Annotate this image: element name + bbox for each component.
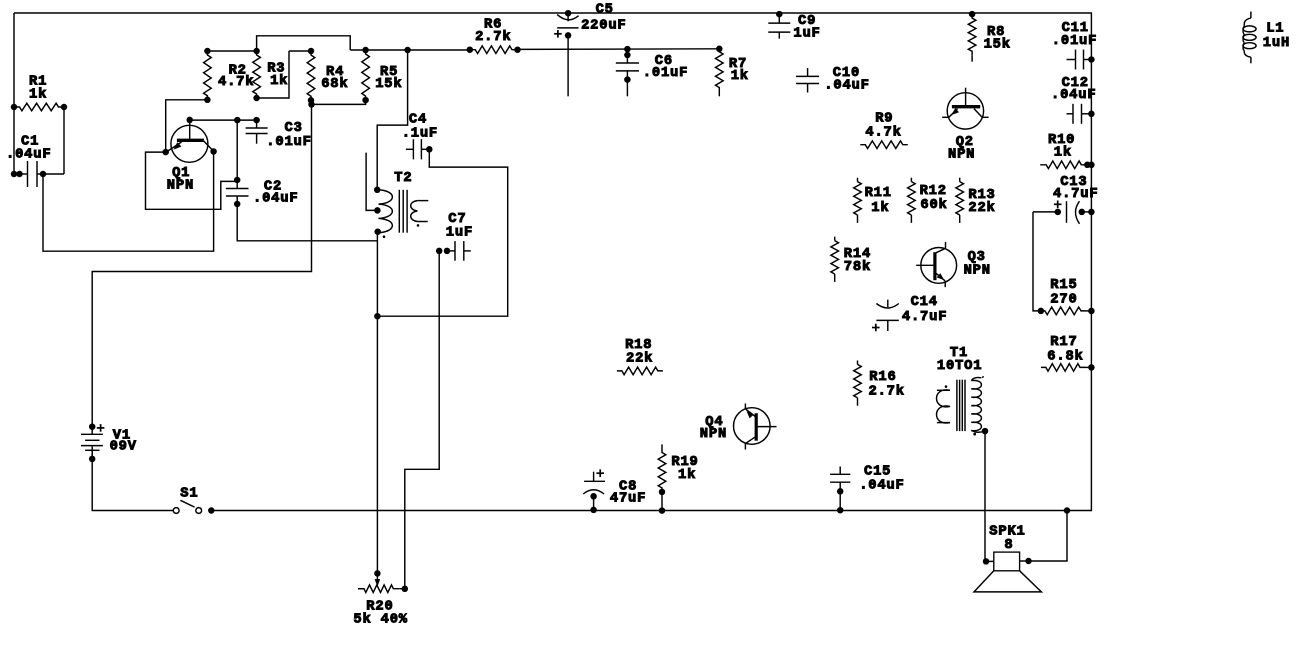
svg-text:68k: 68k — [321, 76, 348, 92]
svg-text:8: 8 — [1004, 538, 1013, 553]
svg-text:NPN: NPN — [167, 179, 194, 194]
svg-text:22k: 22k — [626, 350, 653, 366]
svg-text:R17: R17 — [1050, 335, 1077, 350]
svg-text:1uF: 1uF — [793, 27, 820, 42]
svg-text:C14: C14 — [911, 295, 938, 310]
svg-text:1uH: 1uH — [1263, 36, 1290, 51]
svg-text:22k: 22k — [968, 200, 995, 216]
svg-text:1k: 1k — [1054, 145, 1072, 161]
svg-text:09V: 09V — [110, 439, 137, 454]
svg-text:.04uF: .04uF — [253, 192, 298, 207]
svg-text:10TO1: 10TO1 — [937, 359, 982, 374]
svg-text:R11: R11 — [865, 186, 892, 201]
svg-text:4.7k: 4.7k — [865, 125, 901, 141]
svg-text:R12: R12 — [920, 184, 947, 199]
svg-text:1k: 1k — [29, 87, 47, 103]
svg-text:Q3: Q3 — [968, 250, 986, 265]
svg-text:78k: 78k — [844, 259, 871, 275]
svg-text:.04uF: .04uF — [1051, 88, 1096, 103]
svg-text:R15: R15 — [1050, 278, 1077, 293]
svg-text:220uF: 220uF — [581, 19, 626, 34]
svg-text:4.7uF: 4.7uF — [1053, 187, 1098, 202]
svg-text:5k 40%: 5k 40% — [353, 611, 407, 627]
svg-text:S1: S1 — [180, 487, 198, 502]
svg-text:4.7uF: 4.7uF — [902, 310, 947, 325]
svg-text:NPN: NPN — [964, 264, 991, 279]
svg-text:15k: 15k — [984, 37, 1011, 53]
svg-text:4.7k: 4.7k — [218, 74, 254, 90]
svg-text:.01uF: .01uF — [266, 135, 311, 150]
svg-text:1k: 1k — [270, 73, 288, 89]
svg-text:L1: L1 — [1266, 22, 1284, 37]
svg-text:T2: T2 — [394, 171, 412, 186]
svg-text:15k: 15k — [375, 76, 402, 92]
svg-text:.04uF: .04uF — [6, 148, 51, 163]
svg-text:47uF: 47uF — [610, 491, 646, 506]
svg-text:2.7k: 2.7k — [475, 29, 511, 45]
svg-text:R9: R9 — [875, 111, 893, 126]
svg-text:.04uF: .04uF — [824, 78, 869, 93]
svg-text:.1uF: .1uF — [402, 126, 438, 141]
svg-text:60k: 60k — [920, 197, 947, 213]
svg-text:NPN: NPN — [948, 148, 975, 163]
svg-text:1k: 1k — [731, 68, 749, 84]
svg-text:.01uF: .01uF — [643, 66, 688, 81]
svg-text:1k: 1k — [678, 467, 696, 483]
svg-text:C4: C4 — [409, 112, 427, 127]
svg-text:C15: C15 — [864, 465, 891, 480]
svg-text:1k: 1k — [871, 200, 889, 216]
svg-text:R16: R16 — [869, 370, 896, 385]
svg-text:1uF: 1uF — [446, 226, 473, 241]
svg-text:C5: C5 — [596, 3, 614, 18]
svg-text:2.7k: 2.7k — [869, 383, 905, 399]
svg-text:NPN: NPN — [700, 427, 727, 442]
svg-text:6.8k: 6.8k — [1047, 348, 1083, 364]
svg-text:270: 270 — [1050, 293, 1077, 308]
svg-text:.01uF: .01uF — [1052, 34, 1097, 49]
svg-text:.04uF: .04uF — [859, 479, 904, 494]
